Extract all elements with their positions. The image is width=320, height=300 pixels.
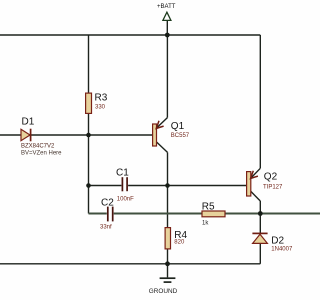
- svg-text:C1: C1: [116, 168, 129, 179]
- svg-text:BV=VZen Here: BV=VZen Here: [21, 151, 62, 157]
- svg-text:GROUND: GROUND: [149, 288, 178, 295]
- svg-text:BZX84C7V2: BZX84C7V2: [21, 144, 55, 150]
- svg-text:820: 820: [174, 240, 185, 246]
- svg-text:33nf: 33nf: [100, 225, 112, 231]
- svg-text:R5: R5: [202, 201, 215, 212]
- svg-text:TIP127: TIP127: [263, 184, 283, 190]
- svg-text:330: 330: [95, 104, 106, 110]
- svg-text:+BATT: +BATT: [157, 4, 176, 10]
- svg-text:BC557: BC557: [171, 133, 190, 139]
- svg-text:C2: C2: [101, 198, 114, 209]
- svg-text:1k: 1k: [202, 221, 209, 227]
- svg-text:1N4007: 1N4007: [271, 247, 293, 253]
- svg-text:D1: D1: [22, 117, 35, 128]
- svg-text:100nF: 100nF: [117, 197, 134, 203]
- svg-text:Q2: Q2: [264, 171, 278, 182]
- svg-text:R3: R3: [95, 93, 108, 104]
- svg-text:D2: D2: [271, 235, 284, 246]
- svg-text:Q1: Q1: [171, 121, 185, 132]
